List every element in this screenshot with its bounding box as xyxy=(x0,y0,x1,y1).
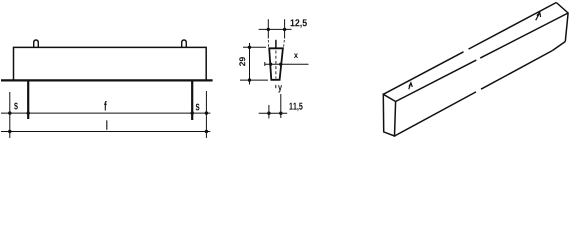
dim 12,5 extension left xyxy=(267,19,269,38)
dim 29 dots xyxy=(248,46,251,82)
dim 12,5 extension right dashed xyxy=(283,40,286,48)
label 11,5 xyxy=(289,103,302,111)
dimension line s-f-s xyxy=(1,112,210,114)
dim 11,5 extension left xyxy=(268,105,270,119)
extension line right xyxy=(205,91,207,138)
iso arrow left xyxy=(409,83,413,90)
section outline trapezoid xyxy=(269,48,283,80)
dimension dots line2 xyxy=(8,130,208,133)
iso right end bottom edge xyxy=(553,42,566,51)
label f xyxy=(104,101,107,110)
section hook stub xyxy=(275,40,277,49)
dim 11,5 extension right / y leader xyxy=(280,94,282,118)
dimension line l xyxy=(1,131,210,133)
iso top-back edge segment 2 xyxy=(469,3,557,50)
wall edge right xyxy=(191,82,193,121)
label l xyxy=(106,120,107,129)
dim 12,5 extension left dashed xyxy=(267,40,269,48)
beam front view outline xyxy=(14,47,207,80)
x axis line xyxy=(265,63,309,65)
dim 11,5 line xyxy=(259,112,288,114)
beam bottom bearing line xyxy=(1,79,213,81)
label x xyxy=(294,54,298,58)
label y xyxy=(278,85,282,92)
iso right end face xyxy=(556,3,568,42)
dim 29 extension top xyxy=(243,46,266,48)
label s right xyxy=(196,104,200,111)
iso arrow right xyxy=(536,13,541,21)
x axis dots xyxy=(269,63,282,66)
dim 29 line xyxy=(249,43,251,85)
iso bottom-front edge segment 2 xyxy=(481,51,553,90)
extension line left xyxy=(9,92,11,138)
label 12,5 xyxy=(291,19,307,28)
lifting hook right xyxy=(182,40,187,47)
iso top-back edge segment 1 xyxy=(383,52,463,95)
dim 11,5 dots xyxy=(267,112,282,115)
wall edge left xyxy=(27,82,29,120)
x axis end tick xyxy=(264,62,266,66)
lifting hook left xyxy=(34,40,39,47)
dim 12,5 line xyxy=(259,28,292,30)
iso top-front edge segment 2 xyxy=(480,13,568,58)
section centerline xyxy=(275,51,277,79)
iso left end face xyxy=(383,94,395,136)
section centerline below xyxy=(275,85,277,88)
iso bottom-front edge segment 1 xyxy=(395,92,477,136)
iso top-front edge segment 1 xyxy=(396,60,477,101)
dim 12,5 dots xyxy=(267,28,287,31)
label s left xyxy=(14,103,18,110)
label 29 rotated xyxy=(239,57,245,66)
dimension dots line1 xyxy=(8,111,208,114)
dim 12,5 extension right xyxy=(284,19,286,38)
dim 29 extension bottom xyxy=(240,79,268,81)
